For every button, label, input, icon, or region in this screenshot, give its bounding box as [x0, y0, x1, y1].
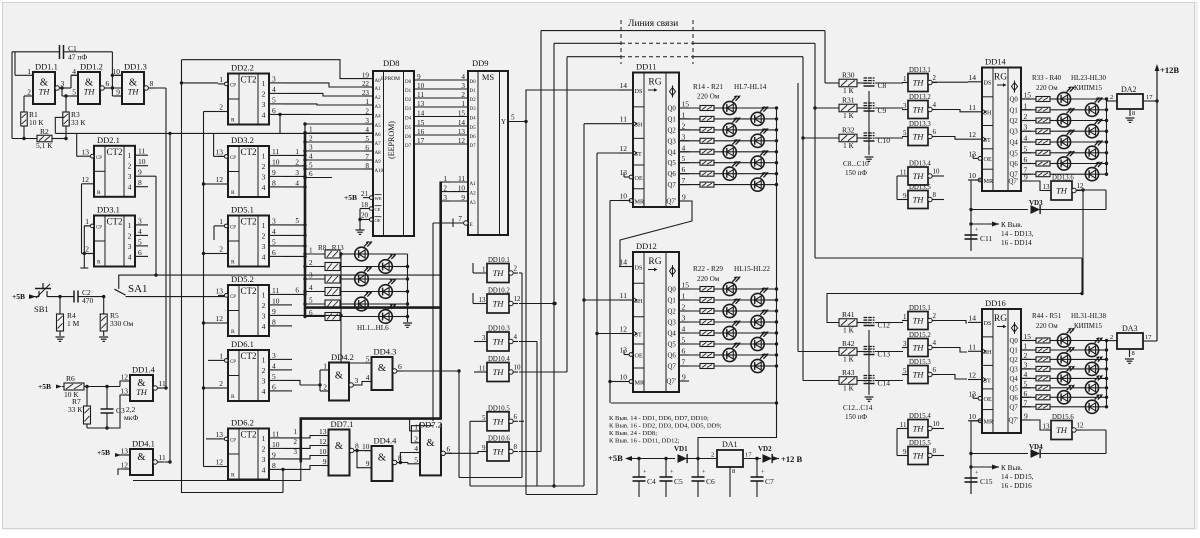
svg-text:5: 5: [272, 237, 276, 246]
svg-text:9: 9: [482, 444, 486, 452]
svg-text:15: 15: [1024, 91, 1032, 100]
svg-text:R14 - R21: R14 - R21: [693, 83, 723, 91]
svg-text:1: 1: [682, 110, 686, 119]
svg-text:DD15.2: DD15.2: [909, 332, 931, 339]
svg-text:3: 3: [461, 82, 465, 90]
svg-text:DD13.2: DD13.2: [909, 94, 931, 101]
svg-text:R: R: [97, 260, 101, 266]
svg-text:Q4: Q4: [668, 149, 677, 156]
svg-text:VD4: VD4: [1029, 443, 1043, 451]
svg-text:1: 1: [85, 217, 89, 226]
svg-text:1: 1: [461, 100, 465, 108]
svg-text:12: 12: [969, 371, 977, 380]
svg-text:3: 3: [1024, 360, 1028, 369]
svg-text:13: 13: [969, 389, 977, 398]
svg-text:Q7': Q7': [667, 199, 677, 206]
svg-text:7: 7: [458, 215, 462, 223]
svg-text:9: 9: [323, 457, 327, 466]
svg-text:3: 3: [309, 144, 313, 152]
svg-text:4: 4: [272, 361, 276, 370]
svg-text:15: 15: [682, 281, 690, 290]
svg-text:2: 2: [933, 74, 937, 82]
svg-text:220 Ом: 220 Ом: [697, 275, 720, 283]
svg-text:SH: SH: [984, 349, 992, 356]
svg-text:C7: C7: [765, 477, 774, 486]
svg-text:VD2: VD2: [758, 445, 772, 453]
svg-text:C14: C14: [878, 379, 891, 388]
svg-text:4: 4: [309, 153, 313, 161]
svg-text:6: 6: [295, 287, 299, 295]
svg-text:5: 5: [1024, 144, 1028, 153]
svg-text:2: 2: [262, 89, 266, 98]
svg-text:1: 1: [323, 362, 327, 371]
svg-text:DD4.2: DD4.2: [331, 352, 354, 362]
svg-text:11: 11: [159, 379, 166, 388]
svg-text:8: 8: [272, 461, 276, 470]
svg-text:12: 12: [216, 175, 224, 184]
svg-text:5: 5: [903, 129, 907, 137]
svg-text:TH: TH: [493, 416, 505, 426]
svg-text:2: 2: [1110, 94, 1113, 101]
svg-text:3: 3: [365, 117, 369, 125]
svg-text:3: 3: [1024, 123, 1028, 132]
svg-text:+5В: +5В: [344, 193, 357, 202]
svg-text:2: 2: [128, 231, 132, 240]
svg-text:ST: ST: [984, 137, 991, 144]
svg-text:4: 4: [138, 227, 142, 236]
svg-text:CP: CP: [230, 360, 236, 365]
svg-text:7: 7: [365, 153, 369, 161]
svg-text:2: 2: [128, 162, 132, 171]
svg-text:3: 3: [482, 334, 486, 342]
svg-text:С12...С14: С12...С14: [843, 404, 873, 412]
svg-text:16: 16: [417, 128, 425, 136]
svg-text:1: 1: [365, 98, 369, 106]
svg-text:11: 11: [272, 286, 279, 295]
svg-text:TH: TH: [39, 86, 51, 96]
svg-text:R43: R43: [842, 368, 855, 377]
svg-text:15: 15: [417, 119, 425, 127]
svg-text:17: 17: [1146, 94, 1153, 101]
svg-text:5: 5: [682, 336, 686, 345]
svg-text:13: 13: [620, 168, 628, 177]
svg-text:DD1.1: DD1.1: [35, 62, 58, 72]
svg-text:CT2: CT2: [240, 430, 256, 440]
svg-text:6: 6: [933, 366, 937, 374]
svg-text:13: 13: [969, 149, 977, 158]
svg-text:6: 6: [365, 144, 369, 152]
svg-text:1: 1: [219, 217, 223, 226]
svg-text:CT2: CT2: [240, 351, 256, 361]
svg-text:10: 10: [272, 157, 280, 166]
svg-text:Q5: Q5: [668, 342, 677, 349]
svg-text:2: 2: [682, 121, 686, 130]
svg-text:CP: CP: [230, 226, 236, 231]
svg-text:8: 8: [1132, 350, 1135, 357]
svg-text:К Выв. 16 - DD2, DD3, DD4, DD5: К Выв. 16 - DD2, DD3, DD4, DD5, DD9;: [609, 423, 722, 430]
svg-text:5: 5: [414, 455, 418, 464]
svg-text:5: 5: [903, 367, 907, 375]
svg-text:DD14: DD14: [985, 57, 1007, 67]
svg-text:A2: A2: [470, 192, 477, 197]
svg-text:TH: TH: [493, 367, 505, 377]
svg-text:10: 10: [417, 82, 425, 90]
svg-text:2: 2: [1024, 112, 1028, 121]
svg-text:2: 2: [309, 259, 313, 267]
svg-text:Q1: Q1: [668, 116, 676, 123]
svg-text:12: 12: [620, 144, 628, 153]
svg-text:TH: TH: [913, 171, 925, 181]
svg-text:CP: CP: [230, 84, 236, 89]
svg-text:TH: TH: [913, 424, 925, 434]
svg-text:+5В: +5В: [608, 453, 623, 463]
svg-text:Q7': Q7': [1009, 179, 1019, 186]
svg-text:10: 10: [138, 157, 146, 166]
svg-text:33 К: 33 К: [71, 118, 86, 127]
svg-text:11: 11: [138, 147, 145, 156]
svg-text:9: 9: [903, 448, 907, 456]
svg-text:6: 6: [933, 128, 937, 136]
svg-text:DA1: DA1: [722, 440, 738, 449]
svg-text:HL31-HL38: HL31-HL38: [1071, 312, 1106, 320]
svg-text:&: &: [335, 441, 343, 452]
svg-text:TH: TH: [493, 337, 505, 347]
svg-text:&: &: [426, 438, 434, 449]
svg-text:8: 8: [150, 79, 154, 88]
svg-text:4: 4: [933, 101, 937, 109]
svg-text:2: 2: [461, 91, 465, 99]
svg-text:12: 12: [620, 325, 628, 334]
svg-text:TH: TH: [1056, 186, 1068, 196]
svg-text:CE: CE: [375, 207, 381, 212]
svg-text:11: 11: [479, 365, 486, 373]
svg-text:8: 8: [514, 443, 518, 451]
svg-text:CT2: CT2: [240, 75, 256, 85]
svg-text:+12 В: +12 В: [781, 454, 802, 464]
svg-text:2: 2: [219, 379, 223, 388]
svg-text:DD15.3: DD15.3: [909, 359, 931, 366]
svg-text:R22 - R29: R22 - R29: [693, 265, 723, 273]
svg-text:R: R: [231, 190, 235, 196]
svg-text:1: 1: [682, 292, 686, 301]
svg-text:11: 11: [969, 342, 976, 351]
svg-text:RG: RG: [648, 257, 661, 267]
svg-text:DD10.1: DD10.1: [488, 257, 510, 264]
svg-text:1: 1: [414, 423, 418, 432]
svg-text:10: 10: [969, 412, 977, 421]
svg-text:17: 17: [1145, 334, 1152, 341]
svg-text:R: R: [231, 329, 235, 335]
svg-text:A0: A0: [375, 79, 382, 84]
svg-text:12: 12: [121, 461, 129, 470]
svg-text:CT2: CT2: [240, 286, 256, 296]
svg-text:3: 3: [128, 172, 132, 181]
svg-text:3: 3: [295, 169, 299, 177]
svg-text:C4: C4: [647, 477, 656, 486]
svg-text:DD10.2: DD10.2: [488, 288, 510, 295]
svg-text:R2: R2: [40, 127, 49, 136]
svg-text:Q1: Q1: [1010, 107, 1018, 114]
svg-text:16 - DD16: 16 - DD16: [1001, 482, 1032, 490]
svg-text:4: 4: [262, 465, 266, 474]
svg-text:A3: A3: [375, 105, 382, 110]
svg-text:DD15.5: DD15.5: [909, 440, 931, 447]
svg-text:OE: OE: [635, 352, 643, 359]
svg-text:10: 10: [969, 171, 977, 180]
svg-text:&: &: [378, 453, 386, 464]
svg-text:RPROM: RPROM: [381, 76, 400, 82]
svg-text:R6: R6: [66, 374, 75, 383]
svg-text:A2: A2: [375, 96, 382, 101]
svg-text:MR: MR: [984, 419, 995, 426]
svg-text:+5В: +5В: [97, 448, 110, 457]
svg-text:C12: C12: [878, 321, 891, 330]
svg-text:TH: TH: [913, 316, 925, 326]
svg-text:12: 12: [216, 314, 224, 323]
svg-text:R31: R31: [842, 96, 855, 105]
svg-text:+: +: [975, 470, 979, 477]
svg-text:A8: A8: [375, 151, 382, 156]
svg-text:OE: OE: [635, 175, 643, 182]
svg-text:D7: D7: [405, 144, 412, 149]
svg-text:3: 3: [355, 376, 359, 385]
svg-text:2: 2: [682, 303, 686, 312]
svg-text:Q7': Q7': [667, 379, 677, 386]
svg-text:10: 10: [458, 184, 466, 192]
svg-text:3: 3: [262, 242, 266, 251]
svg-text:6: 6: [272, 248, 276, 257]
svg-text:2: 2: [1110, 334, 1113, 341]
svg-text:2: 2: [219, 245, 223, 254]
svg-text:DD7.1: DD7.1: [331, 419, 354, 429]
svg-text:2: 2: [711, 452, 714, 459]
svg-text:10: 10: [362, 442, 370, 451]
svg-text:4: 4: [262, 387, 266, 396]
svg-text:14: 14: [417, 109, 425, 117]
svg-text:10: 10: [620, 373, 628, 382]
svg-text:6: 6: [309, 170, 313, 178]
svg-text:6: 6: [447, 444, 451, 453]
svg-text:TH: TH: [1056, 425, 1068, 435]
svg-text:4: 4: [1024, 370, 1028, 379]
svg-text:R: R: [231, 118, 235, 124]
svg-text:2: 2: [85, 245, 89, 254]
svg-text:9: 9: [682, 193, 686, 202]
svg-text:D1: D1: [405, 89, 412, 94]
svg-text:3: 3: [903, 102, 907, 110]
svg-text:C11: C11: [980, 234, 992, 243]
svg-text:&: &: [335, 370, 343, 381]
svg-text:R32: R32: [842, 126, 855, 135]
svg-text:DD13.5: DD13.5: [909, 184, 931, 191]
svg-text:A9: A9: [375, 160, 382, 165]
svg-text:470: 470: [82, 296, 94, 305]
svg-text:9: 9: [366, 459, 370, 468]
svg-text:CP: CP: [96, 156, 102, 161]
svg-text:8: 8: [272, 317, 276, 326]
svg-text:Q0: Q0: [1010, 97, 1019, 104]
svg-text:11: 11: [272, 429, 279, 438]
svg-text:2: 2: [414, 434, 418, 443]
svg-text:10: 10: [272, 296, 280, 305]
svg-text:11: 11: [620, 291, 627, 300]
svg-text:13: 13: [319, 427, 327, 436]
svg-text:TH: TH: [913, 370, 925, 380]
svg-text:D0: D0: [405, 80, 412, 85]
svg-text:13: 13: [1043, 183, 1051, 191]
svg-text:13: 13: [458, 128, 466, 136]
svg-text:9: 9: [116, 88, 120, 97]
svg-text:13: 13: [82, 147, 90, 156]
svg-text:Q3: Q3: [1010, 129, 1019, 136]
svg-text:Q5: Q5: [1010, 385, 1019, 392]
svg-text:A7: A7: [375, 142, 382, 147]
svg-text:5,1 К: 5,1 К: [36, 141, 53, 150]
svg-text:10: 10: [933, 420, 941, 428]
svg-text:11: 11: [620, 115, 627, 124]
svg-text:+: +: [670, 469, 674, 476]
svg-text:R: R: [231, 473, 235, 479]
svg-text:1: 1: [262, 434, 266, 443]
svg-text:Q7': Q7': [1009, 418, 1019, 425]
svg-text:5: 5: [482, 414, 486, 422]
svg-text:4: 4: [461, 73, 465, 81]
svg-text:2: 2: [309, 135, 313, 143]
svg-text:6: 6: [682, 347, 686, 356]
svg-text:DD4.1: DD4.1: [132, 439, 155, 449]
svg-text:D6: D6: [470, 135, 477, 140]
svg-text:12: 12: [319, 437, 327, 446]
svg-text:2: 2: [262, 231, 266, 240]
svg-text:11: 11: [458, 175, 465, 183]
svg-text:220 Ом: 220 Ом: [1036, 322, 1058, 330]
svg-text:CP: CP: [230, 156, 236, 161]
svg-text:12: 12: [82, 175, 90, 184]
svg-text:+: +: [643, 469, 647, 476]
svg-text:R42: R42: [842, 339, 855, 348]
svg-text:Q3: Q3: [1010, 366, 1019, 373]
svg-text:11: 11: [272, 147, 279, 156]
svg-text:1: 1: [27, 67, 31, 76]
svg-text:1: 1: [219, 75, 223, 84]
svg-text:10: 10: [514, 364, 522, 372]
svg-text:К Выв. 14 - DD1, DD6, DD7, DD1: К Выв. 14 - DD1, DD6, DD7, DD10;: [609, 415, 709, 422]
svg-text:DD13.6: DD13.6: [1052, 175, 1074, 182]
svg-text:Q5: Q5: [668, 160, 677, 167]
svg-text:Q3: Q3: [668, 320, 677, 327]
svg-text:Q7: Q7: [1010, 404, 1019, 411]
svg-text:15: 15: [458, 109, 466, 117]
svg-text:9: 9: [903, 192, 907, 200]
svg-text:TH: TH: [493, 268, 505, 278]
svg-text:A1: A1: [375, 87, 382, 92]
svg-text:330 Ом: 330 Ом: [110, 319, 134, 328]
svg-text:+5В: +5В: [38, 382, 51, 391]
svg-text:20: 20: [361, 212, 369, 220]
svg-text:4: 4: [682, 143, 686, 152]
svg-text:1: 1: [262, 355, 266, 364]
svg-text:13: 13: [216, 148, 224, 157]
svg-text:5: 5: [1024, 379, 1028, 388]
svg-text:21: 21: [361, 190, 369, 198]
svg-text:8: 8: [732, 468, 735, 475]
svg-text:TH: TH: [136, 387, 148, 397]
svg-text:1: 1: [262, 79, 266, 88]
svg-text:11: 11: [159, 453, 166, 462]
svg-text:DD6.1: DD6.1: [231, 339, 254, 349]
svg-text:DD10.3: DD10.3: [488, 326, 510, 333]
svg-text:4: 4: [272, 227, 276, 236]
svg-text:3: 3: [272, 216, 276, 225]
svg-text:D0: D0: [470, 80, 477, 85]
svg-text:DD15.1: DD15.1: [909, 305, 931, 312]
svg-text:4: 4: [262, 110, 266, 119]
svg-text:150 пФ: 150 пФ: [845, 413, 867, 421]
svg-text:Q6: Q6: [1010, 395, 1019, 402]
svg-text:5: 5: [72, 88, 76, 97]
svg-text:VD3: VD3: [1029, 199, 1043, 207]
svg-text:R: R: [231, 260, 235, 266]
svg-text:К Выв.: К Выв.: [1001, 221, 1023, 229]
svg-text:A1: A1: [470, 182, 477, 187]
svg-text:12: 12: [458, 137, 466, 145]
svg-text:Q1: Q1: [1010, 348, 1018, 355]
svg-text:6: 6: [1024, 155, 1028, 164]
svg-text:6: 6: [138, 248, 142, 257]
svg-text:TH: TH: [128, 86, 140, 96]
svg-text:4: 4: [128, 183, 132, 192]
svg-text:DA3: DA3: [1122, 324, 1138, 333]
svg-text:5: 5: [295, 217, 299, 225]
svg-text:1 К: 1 К: [843, 326, 855, 335]
svg-text:1: 1: [294, 428, 298, 436]
svg-text:Q3: Q3: [668, 138, 677, 145]
svg-text:7: 7: [682, 358, 686, 367]
svg-text:HL1...HL6: HL1...HL6: [357, 324, 389, 332]
svg-text:DD12: DD12: [636, 241, 657, 251]
svg-text:A4: A4: [375, 115, 382, 120]
svg-text:КИПМ15: КИПМ15: [1074, 322, 1103, 330]
svg-text:2: 2: [262, 366, 266, 375]
svg-text:MR: MR: [984, 178, 995, 185]
svg-text:Q0: Q0: [668, 106, 677, 113]
svg-text:1 К: 1 К: [843, 141, 855, 150]
svg-text:13: 13: [417, 100, 425, 108]
svg-text:SH: SH: [635, 298, 643, 305]
svg-text:13: 13: [216, 430, 224, 439]
svg-text:DD5.1: DD5.1: [231, 205, 254, 215]
svg-text:4: 4: [128, 252, 132, 261]
svg-text:4: 4: [414, 444, 418, 453]
svg-text:К Выв.: К Выв.: [1001, 464, 1023, 472]
svg-text:DD7.2: DD7.2: [419, 420, 442, 430]
svg-text:9: 9: [272, 168, 276, 177]
svg-text:2: 2: [262, 301, 266, 310]
svg-text:DD9: DD9: [472, 58, 489, 68]
svg-text:CP: CP: [230, 439, 236, 444]
svg-text:11: 11: [900, 421, 907, 429]
svg-text:A3: A3: [470, 201, 477, 206]
svg-text:Линия связи: Линия связи: [628, 19, 678, 29]
svg-text:A6: A6: [375, 133, 382, 138]
svg-text:Q6: Q6: [1010, 161, 1019, 168]
svg-text:TH: TH: [913, 132, 925, 142]
svg-text:4: 4: [72, 67, 76, 76]
svg-text:КИПМ15: КИПМ15: [1074, 84, 1103, 92]
svg-text:TH: TH: [493, 447, 505, 457]
svg-text:+: +: [975, 227, 979, 234]
svg-text:1: 1: [482, 266, 486, 274]
